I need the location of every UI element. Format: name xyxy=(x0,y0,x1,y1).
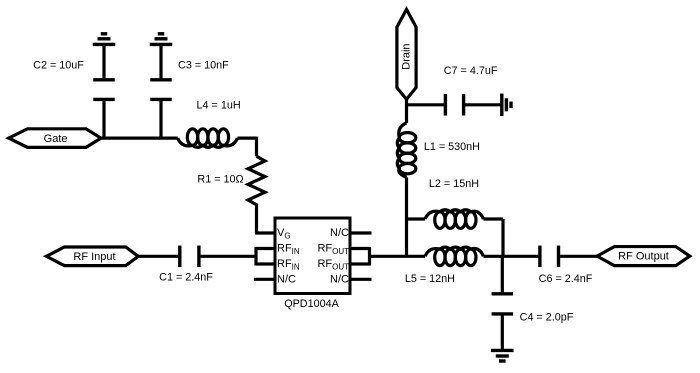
svg-text:N/C: N/C xyxy=(330,273,349,285)
pin N/C right bottom xyxy=(350,278,372,281)
svg-text:C7 = 4.7uF: C7 = 4.7uF xyxy=(444,65,498,77)
wire C6 to RF Output xyxy=(559,255,598,258)
wire to L2 xyxy=(407,217,426,220)
svg-text:C3 = 10nF: C3 = 10nF xyxy=(178,60,229,72)
svg-text:RF Output: RF Output xyxy=(618,251,669,263)
wire node Drain to C7 xyxy=(407,103,446,106)
capacitor C7 xyxy=(444,94,447,116)
wire L4 to R1 xyxy=(237,137,256,140)
wire C7 to ground xyxy=(464,103,502,106)
inductor L5 xyxy=(435,249,445,266)
svg-text:C6 = 2.4nF: C6 = 2.4nF xyxy=(539,273,593,285)
capacitor C3 xyxy=(159,44,162,79)
resistor R1 xyxy=(248,156,265,212)
svg-text:C4 = 2.0pF: C4 = 2.0pF xyxy=(520,312,574,324)
ground below C4 xyxy=(491,349,514,352)
ground above C3 xyxy=(150,43,173,46)
svg-text:L5 = 12nH: L5 = 12nH xyxy=(405,273,455,285)
capacitor C2 xyxy=(102,44,105,79)
svg-text:R1 = 10Ω: R1 = 10Ω xyxy=(197,174,243,186)
pin N/C right top xyxy=(350,231,372,234)
wire down to R1 xyxy=(255,137,258,157)
svg-text:C2 = 10uF: C2 = 10uF xyxy=(33,60,84,72)
svg-text:C1 = 2.4nF: C1 = 2.4nF xyxy=(159,272,213,284)
wire RFOUT pins to L5 xyxy=(370,255,426,258)
svg-text:N/C: N/C xyxy=(277,273,296,285)
svg-text:N/C: N/C xyxy=(330,227,349,239)
pins RFIN bracket xyxy=(256,247,275,250)
svg-text:RF Input: RF Input xyxy=(73,251,115,263)
IC U1 QPD1004A xyxy=(275,218,350,294)
terminal RF Input xyxy=(46,247,138,266)
svg-text:L2 = 15nH: L2 = 15nH xyxy=(429,178,479,190)
pin N/C left xyxy=(254,278,275,281)
inductor L2 xyxy=(435,212,445,229)
svg-text:L4 = 1uH: L4 = 1uH xyxy=(197,99,241,111)
svg-text:L1 = 530nH: L1 = 530nH xyxy=(424,141,480,153)
wire Drain stem xyxy=(405,98,408,123)
svg-text:Drain: Drain xyxy=(401,43,413,69)
svg-text:QPD1004A: QPD1004A xyxy=(284,298,339,310)
ground above C2 xyxy=(93,43,116,46)
wire C1 to RFIN pins xyxy=(199,255,256,258)
wire R1 to pin VG xyxy=(255,213,258,234)
wire RF Input to C1 xyxy=(138,255,180,258)
wire L5 to C6 xyxy=(483,255,540,258)
terminal RF Output xyxy=(597,247,690,266)
wire L1 to output node xyxy=(405,177,408,256)
svg-text:Gate: Gate xyxy=(44,133,68,145)
capacitor C6 xyxy=(538,246,541,267)
ground right of C7 xyxy=(500,94,503,117)
inductor L4 xyxy=(187,129,197,146)
capacitor C4 xyxy=(501,256,504,294)
wire gate bus xyxy=(99,137,178,140)
inductor L1 xyxy=(399,133,416,143)
pins RFOUT bracket xyxy=(350,247,370,250)
wire L2 to output node xyxy=(483,217,503,220)
terminal Gate xyxy=(9,129,101,148)
terminal Drain xyxy=(397,9,416,99)
capacitor C1 xyxy=(178,246,181,267)
